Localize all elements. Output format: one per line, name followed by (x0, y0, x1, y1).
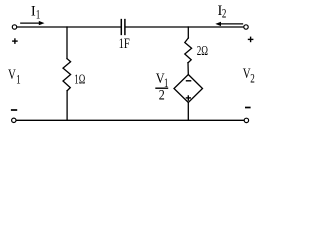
svg-text:2: 2 (159, 86, 165, 102)
svg-text:1F: 1F (119, 36, 130, 52)
svg-text:1: 1 (16, 73, 21, 87)
svg-text:2Ω: 2Ω (197, 42, 208, 59)
svg-text:2: 2 (250, 72, 255, 86)
svg-text:1Ω: 1Ω (74, 71, 85, 87)
svg-text:I: I (31, 3, 36, 19)
svg-text:1: 1 (36, 8, 40, 22)
svg-text:V: V (8, 66, 16, 82)
svg-text:2: 2 (222, 7, 226, 21)
